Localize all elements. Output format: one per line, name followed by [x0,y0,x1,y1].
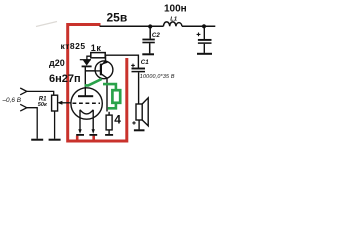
capacitor (electrolytic) at L1 output [197,26,212,53]
wire: base wire from anode lead to transistor [85,70,101,72]
svg-text:10000,0*35 В: 10000,0*35 В [140,74,175,80]
tube V1 (6н27п) envelope [71,88,102,119]
wire: collector lead down [106,78,108,112]
resistor 1к [91,53,105,58]
svg-text:50к: 50к [38,102,48,108]
wire: anode lead up to diode [84,67,86,97]
wire: red stub to right heater bar [92,136,95,141]
svg-text:L1: L1 [170,17,177,23]
tube heater/cathode arc [80,110,93,114]
input terminal (top) [20,88,27,95]
tube grid (dashed) [73,102,101,104]
tube anode plate [78,95,93,97]
svg-text:д20: д20 [49,58,65,68]
resistor (green) [112,90,120,103]
svg-text:–0,6 В: –0,6 В [2,97,22,104]
capacitor C2 [142,26,154,53]
svg-text:100н: 100н [164,4,187,15]
heater bar right [89,134,97,136]
wire: input to R1 top [27,91,54,95]
svg-text:4: 4 [114,112,121,126]
ground under speaker [134,129,145,131]
diode д20 [80,60,92,67]
svg-text:C2: C2 [152,32,160,39]
svg-text:25в: 25в [107,11,128,25]
wire: lower input terminal to ground [27,108,37,139]
wire: red highlighted supply/return loop [68,25,127,142]
tube heater lead left with arrow [79,110,81,130]
wire: emitter node to C1 [105,55,138,68]
svg-text:6н27п: 6н27п [49,73,81,85]
node: junction dot at output cap [202,24,206,28]
wire: +25V rail (black) [100,25,216,27]
ground under input [31,139,43,141]
ground under R1 [49,139,61,141]
inductor L1 [164,22,183,26]
svg-text:кт825: кт825 [61,41,86,51]
heater bar left [76,134,84,136]
capacitor C1 [131,64,145,104]
tube heater lead right with arrow [92,110,94,130]
resistor 4 (cathode) [106,112,112,134]
node: junction dot at C2 [148,24,152,28]
faint pencil smudge [36,22,57,27]
ground under C2 [142,53,154,55]
potentiometer R1 50к [52,95,73,139]
wire: 1к left lead down to diode [87,56,91,59]
speaker BA1 [132,98,148,130]
svg-text:1к: 1к [91,43,102,53]
svg-text:C1: C1 [141,59,149,66]
ground under output capacitor [197,53,212,55]
input terminal (bottom) [20,104,27,111]
heater bar under resistor 4 [105,134,113,136]
transistor Q1 (кт825) [85,56,113,79]
wire: red stub to left heater bar [76,136,79,141]
wire: green highlighted modification [85,79,116,108]
